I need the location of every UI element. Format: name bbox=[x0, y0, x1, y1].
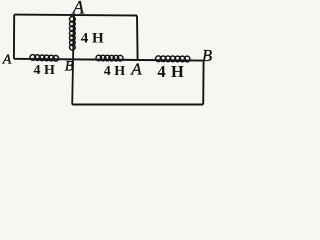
value label 4 H for L3 bbox=[104, 64, 126, 79]
inductor L1 (vertical, 4 H) bbox=[70, 16, 76, 50]
svg-text:A: A bbox=[71, 0, 85, 19]
svg-text:4 H: 4 H bbox=[157, 62, 184, 81]
wire: top rectangle right edge bbox=[136, 16, 139, 60]
svg-text:4 H: 4 H bbox=[34, 63, 56, 78]
svg-text:A: A bbox=[2, 53, 12, 68]
wire: vertical wire from top line through node B down to bottom rectangle bbox=[72, 15, 74, 104]
svg-text:4 H: 4 H bbox=[104, 64, 126, 79]
wire: middle horizontal line A to B bbox=[14, 59, 204, 61]
node A (middle right) bbox=[130, 60, 142, 79]
wire: bottom rectangle bottom edge bbox=[72, 104, 203, 106]
inductor L2 (left horizontal, 4 H) bbox=[30, 55, 59, 62]
inductor L3 (middle horizontal, 4 H) bbox=[96, 55, 123, 61]
wire: top rectangle left edge bbox=[13, 15, 15, 59]
wire: top rectangle top edge bbox=[14, 14, 137, 17]
value label 4 H for L2 bbox=[34, 63, 56, 78]
svg-text:4 H: 4 H bbox=[81, 31, 104, 47]
value label 4 H for L4 bbox=[157, 62, 184, 81]
svg-text:B: B bbox=[202, 46, 212, 65]
value label 4 H for L1 bbox=[81, 31, 104, 47]
wire: bottom rectangle right edge bbox=[202, 61, 204, 105]
inductor L4 (right horizontal, 4 H) bbox=[156, 56, 190, 62]
node B (right) bbox=[202, 46, 212, 65]
node A (top) bbox=[71, 0, 85, 19]
node B (middle) bbox=[65, 59, 74, 75]
svg-text:A: A bbox=[130, 60, 142, 79]
node A (left) bbox=[2, 53, 12, 68]
svg-text:B: B bbox=[65, 59, 74, 75]
